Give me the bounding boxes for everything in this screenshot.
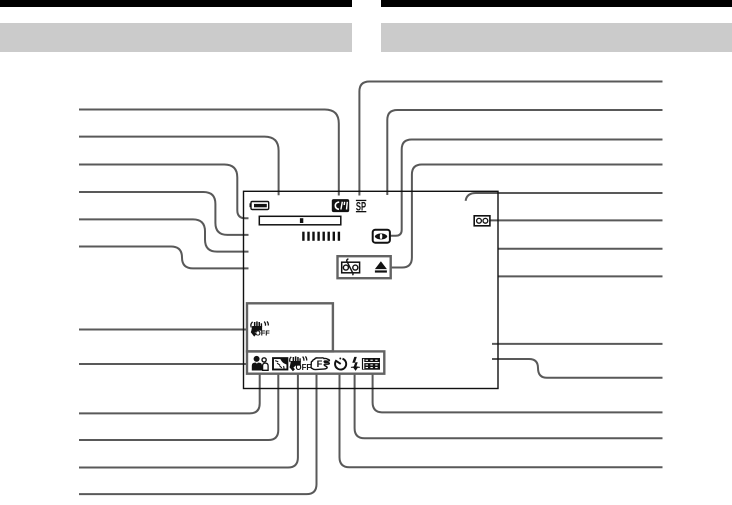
- cassette with slash icon: [342, 259, 360, 275]
- SP record mode indicator: [356, 199, 366, 213]
- callout line L3 (tape transport row): [79, 165, 249, 219]
- svg-text:F: F: [317, 358, 323, 369]
- callout line L12 (icon4): [79, 374, 317, 494]
- eject triangle: [375, 261, 387, 269]
- svg-text:OFF: OFF: [296, 363, 312, 372]
- callout line R10 (jogged): [492, 359, 663, 378]
- icon: index table: [362, 358, 380, 370]
- icon row box: [247, 351, 384, 373]
- callout line R6 (cassette memory): [490, 219, 663, 221]
- header gray bar right: [381, 23, 732, 52]
- callout line R1 (SP mode): [359, 82, 662, 196]
- callout line R11 (icon7): [373, 374, 663, 413]
- callout line R2: [387, 110, 662, 195]
- icon: backlight: [273, 358, 287, 369]
- eject indicator box: [338, 256, 391, 278]
- LCD screen outline: [244, 191, 499, 388]
- steadyshot OFF icon (large): [251, 321, 270, 337]
- battery indicator: [250, 202, 269, 210]
- callout line R5 (warning area): [466, 193, 663, 201]
- callout line R3 (mirror eye): [390, 140, 662, 236]
- callout line L8 (icon row box): [79, 363, 246, 365]
- callout line L9 (icon1): [79, 374, 260, 414]
- callout line L2 (remaining battery): [79, 137, 279, 196]
- callout line L5: [79, 219, 249, 251]
- callout line R8: [498, 275, 663, 277]
- icon: flash: [351, 357, 360, 371]
- svg-text:OFF: OFF: [255, 329, 270, 338]
- steadyshot frame box: [247, 303, 333, 351]
- remaining tape indicator C///: [332, 199, 349, 212]
- icon: self-timer: [335, 358, 346, 370]
- callout line R7: [498, 248, 663, 250]
- header black bar left: [0, 0, 352, 7]
- tape transport bar: [259, 216, 341, 225]
- level tick marks: [302, 232, 340, 241]
- callout line L7 (steadyshot box): [79, 329, 246, 331]
- callout line L10 (icon2): [79, 374, 278, 440]
- mirror mode eye indicator: [373, 230, 390, 243]
- callout line L6: [79, 247, 249, 269]
- icon: steadyshot OFF (small): [290, 356, 312, 372]
- callout line L4 (tick marks row): [79, 192, 249, 235]
- callout line R12 (icon6): [355, 374, 663, 439]
- cassette memory indicator (right): [474, 216, 490, 226]
- callout line R4 (eject box): [391, 165, 663, 268]
- callout line L1 (remaining tape): [79, 110, 339, 196]
- callout line R9: [492, 343, 663, 345]
- callout line L11 (icon3): [79, 374, 298, 468]
- icon: portrait mode (two persons): [252, 356, 268, 371]
- callout line R13 (icon5): [340, 374, 663, 468]
- icon: manual focus: [311, 358, 329, 370]
- header black bar right: [381, 0, 732, 7]
- header gray bar left: [0, 23, 352, 52]
- tape transport marker: [300, 218, 303, 223]
